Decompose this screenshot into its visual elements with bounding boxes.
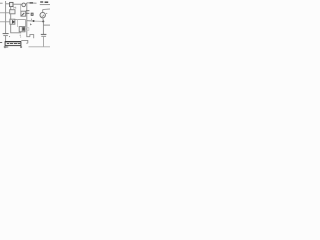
wire top bus left segment [6,3,10,5]
label text bottom-left 2 [7,46,9,48]
wire mid horizontal branch light part [35,20,44,22]
label a right of mid rail [31,13,33,15]
wire right edge line at M1 level [43,8,50,11]
label b below branch [30,24,31,26]
wire left edge tap mid1 [0,12,10,14]
wire mid vertical rail [27,3,30,37]
component U1 box [21,11,26,16]
motor M1 inner mark [42,15,44,17]
wire bottom bus [29,46,51,48]
wire above-box horizontal [21,40,28,43]
wire drop right of K2 output [25,20,27,27]
fuse F1 dark corner mark [12,5,13,6]
component K2 dark mark [12,20,14,23]
label text bottom-left circle [4,46,6,48]
capacitor small plate [26,42,28,44]
wire left edge tap mid2 [0,21,10,23]
label dot left of C-left [9,36,10,37]
fuse F1 box on top wire [10,2,13,6]
wire bottom left edge stub [0,42,2,44]
label mark below K3 second [20,37,21,38]
faint box right of K3 [26,28,29,31]
component K2 box [10,19,15,24]
wire mid horizontal branch dark part [27,20,34,22]
capacitor C-right plate1 [41,33,47,35]
label text bottom x [20,46,22,48]
resistor R1 box [10,10,15,14]
wire circle to mid rail [26,2,27,5]
wire dark overdraw on top bus [30,2,33,4]
wire R1 to K2 [10,14,12,19]
wire left vertical rail [5,1,7,33]
wire F1 down to R1 [10,7,12,10]
wire right vertical mid [42,22,44,35]
capacitor C-mid plate1 [26,10,30,12]
wire M1 down to junction [42,18,44,22]
capacitor C-left bottom plate [3,35,8,37]
wire right edge line upper [40,4,50,6]
battery GB1 text [7,43,20,45]
battery GB1 dark top edge [5,41,21,43]
relay K3 double box [19,27,25,32]
wire right vertical top [42,10,44,13]
motor M1 circle [40,12,45,17]
label marks below K3 [20,35,21,36]
label dot right of M1 [46,12,47,14]
wire left edge stub top [0,2,3,4]
label dot [31,18,32,20]
wire top bus right segment [27,2,37,4]
node junction dot A [33,20,35,22]
wire left rail lower [5,36,7,42]
component U1 diagonal mark [22,13,25,16]
motor M1 inner dot [43,15,44,16]
capacitor C-right plate2 [41,35,46,37]
wire right vertical bottom [43,37,45,47]
node terminal circle on top bus [22,3,26,7]
node junction dot B [42,21,44,23]
capacitor C-left top plate [3,33,9,35]
capacitor C-mid plate2 [26,12,30,14]
wire top bus middle segment [13,3,22,5]
battery GB1 label box [5,42,21,46]
label text dashes top-right [40,1,48,3]
wire zigzag below mid rail [30,35,34,39]
label squiggle right of F1 [14,7,16,9]
wire K2 down and right [11,24,22,33]
wire right edge tap [43,24,50,26]
relay K3 dark cell [22,27,24,31]
relay K3 divider [21,27,23,32]
wire faint vertical mid-left [17,20,19,27]
wire drop from top bus to U1 [20,4,22,11]
wire K2 output right [15,19,26,21]
